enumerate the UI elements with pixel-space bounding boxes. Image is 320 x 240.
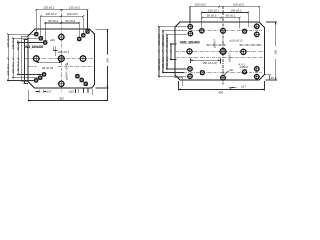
left plate center hole ⌀35 (58, 56, 64, 62)
svg-text:100 ±0.2: 100 ±0.2 (233, 3, 245, 7)
svg-text:⌀35H7: ⌀35H7 (212, 39, 216, 48)
left bottom overall dim 363 (28, 100, 107, 102)
svg-text:100 ±0.1: 100 ±0.1 (230, 8, 242, 12)
svg-text:80 ±0.2: 80 ±0.2 (165, 56, 169, 66)
svg-text:⌀35 ±0.1: ⌀35 ±0.1 (58, 50, 70, 54)
right plate top row centerline (184, 30, 262, 32)
left plate mid-left hole (34, 56, 40, 62)
left plate mid-right hole (80, 56, 86, 62)
right leader ⌀8 (225, 72, 228, 75)
right corner mini dim 25 (265, 74, 271, 76)
right bottom ⌀17 label with leader (229, 86, 236, 89)
right height dim extensions (266, 21, 277, 23)
svg-text:⌀35H7: ⌀35H7 (228, 53, 232, 62)
right plate lower dash-dot line (177, 57, 264, 59)
svg-text:80 ±0.2: 80 ±0.2 (165, 37, 169, 47)
right plate bottom row centerline (184, 71, 262, 73)
svg-text:KM2_320x400: KM2_320x400 (180, 40, 200, 44)
right margin dim col1 (158, 27, 160, 77)
left side chamfer extension verticals (21, 36, 23, 81)
left plate bottom-left corner holes (34, 79, 37, 82)
left leader bracket for ⌀35 ±0.1 (52, 47, 54, 51)
svg-text:80 ±0.2: 80 ±0.2 (16, 61, 20, 71)
right plate left column holes (188, 24, 193, 29)
svg-text:100 ±0.1: 100 ±0.1 (208, 8, 220, 12)
svg-text:150 ±0.2: 150 ±0.2 (195, 3, 207, 7)
left plate top-middle hole (59, 34, 64, 39)
svg-text:80 ±0.2: 80 ±0.2 (65, 19, 75, 23)
svg-text:⌀8 ±0.05: ⌀8 ±0.05 (42, 66, 54, 70)
right margin dim col2 (162, 31, 164, 73)
svg-text:135 ±0.2: 135 ±0.2 (43, 6, 55, 10)
svg-text:⌀13: ⌀13 (69, 90, 74, 94)
left bottom dim ⌀17 (38, 90, 40, 93)
right margin extension lines (158, 26, 187, 28)
left height dim line 296 (106, 29, 108, 54)
right height dim line 320 (275, 22, 277, 46)
svg-text:⌀35H7: ⌀35H7 (240, 65, 249, 69)
svg-text:100 ±0.2: 100 ±0.2 (45, 12, 57, 16)
svg-text:100 ±0.2: 100 ±0.2 (67, 12, 79, 16)
svg-text:135 ±0.2: 135 ±0.2 (6, 36, 10, 48)
svg-text:150 ±0.1(1): 150 ±0.1(1) (202, 61, 217, 65)
right dim 150 ±0.1 line (190, 59, 220, 61)
left top dim row3 line (45, 22, 79, 24)
svg-text:135 ±0.2: 135 ±0.2 (69, 6, 81, 10)
svg-text:⌀10: ⌀10 (50, 38, 55, 42)
right plate intermediate holes (200, 29, 204, 33)
svg-text:⌀17: ⌀17 (47, 90, 52, 94)
right plate center column holes (221, 28, 226, 33)
right margin dim col3 (166, 35, 168, 69)
svg-text:25: 25 (271, 76, 275, 80)
left plate top-left corner holes (35, 33, 38, 36)
svg-text:80 ±0.2: 80 ±0.2 (48, 19, 58, 23)
svg-text:KM2_320x320: KM2_320x320 (24, 45, 44, 49)
left top dim row1 line (36, 9, 87, 11)
right plate upper dash-dot line (207, 44, 226, 46)
svg-text:100 ±0.2: 100 ±0.2 (11, 37, 15, 49)
svg-text:⌀17: ⌀17 (241, 85, 246, 89)
right top dim extension lines (189, 8, 191, 24)
left bottom extension ticks (74, 89, 76, 93)
left side dim extension lines (7, 33, 34, 35)
left plate outline KM2_320x320 (28, 29, 94, 88)
right margin dim col4 (170, 44, 172, 60)
svg-text:⌀8: ⌀8 (229, 68, 233, 72)
svg-text:50 ±0.1: 50 ±0.1 (207, 14, 217, 18)
left top dim extension lines (35, 11, 37, 32)
svg-text:50 ±0.1: 50 ±0.1 (226, 14, 236, 18)
right plate outline KM2_320x400 (175, 22, 265, 80)
left inner dim line between holes (36, 61, 61, 63)
right plate right column holes (255, 24, 260, 29)
svg-text:296: 296 (105, 58, 109, 63)
left plate top-right corner holes (86, 30, 89, 33)
left top dim row2 line (41, 15, 84, 17)
left plate vertical centerline (60, 9, 62, 93)
svg-text:320: 320 (273, 50, 277, 55)
svg-text:100 ±0.2: 100 ±0.2 (11, 62, 15, 74)
right top dim row3 line (202, 17, 240, 19)
left side dim col2 line (12, 38, 14, 77)
left plate lower dash-dot line (28, 66, 36, 68)
left height dim extensions (95, 28, 108, 30)
svg-text:135 ±0.2: 135 ±0.2 (6, 64, 10, 76)
svg-text:80 ±0.2: 80 ±0.2 (16, 40, 20, 50)
svg-text:363: 363 (59, 97, 64, 101)
left side dim col1 line (7, 34, 9, 80)
left side dim col3 line (17, 43, 19, 75)
left plate bottom-middle hole (59, 81, 64, 86)
right plate middle centerline (176, 50, 265, 52)
right top dim row1 line (190, 6, 259, 8)
right bottom overall dim 400 (179, 88, 265, 90)
left plate horizontal centerline (25, 58, 96, 60)
right plate vertical centerline (222, 6, 224, 85)
right top dim row2 line (202, 11, 249, 13)
svg-text:⌀10 ±0.12: ⌀10 ±0.12 (230, 39, 243, 43)
left plate bottom-right corner holes (84, 82, 87, 85)
svg-text:⌀35H7 ±0.1: ⌀35H7 ±0.1 (64, 65, 68, 80)
svg-text:400: 400 (218, 90, 223, 94)
